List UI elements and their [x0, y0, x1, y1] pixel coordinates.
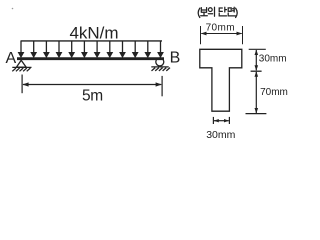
- svg-text:30mm: 30mm: [259, 53, 287, 64]
- svg-text:5m: 5m: [82, 87, 103, 104]
- roller support B: [151, 58, 170, 71]
- span dimension 5m: [22, 75, 162, 97]
- svg-text:70mm: 70mm: [206, 23, 235, 34]
- web height dimension 70mm: [246, 71, 267, 113]
- web width dimension 30mm: [213, 117, 229, 124]
- flange thickness dimension 30mm: [249, 49, 266, 71]
- flange width dimension 70mm: [201, 26, 243, 44]
- svg-text:70mm: 70mm: [260, 87, 288, 98]
- T-section outline: [200, 49, 242, 111]
- pin support A: [12, 60, 31, 71]
- distributed load arrows: [19, 41, 163, 57]
- svg-text:A: A: [5, 50, 16, 67]
- section caption (보의 단면): [198, 7, 237, 17]
- svg-text:30mm: 30mm: [206, 129, 235, 141]
- svg-text:4kN/m: 4kN/m: [69, 23, 118, 42]
- distributed load top line: [21, 40, 163, 42]
- svg-text:B: B: [170, 49, 181, 66]
- beam AB: [17, 57, 164, 60]
